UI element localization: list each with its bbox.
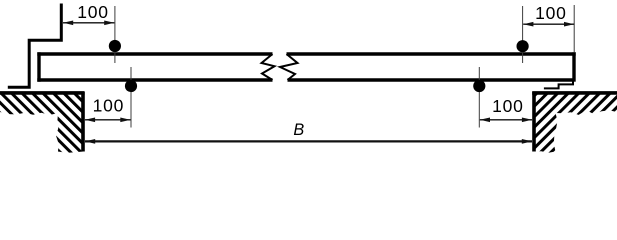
dimension bottom-left 100 [85, 117, 131, 122]
right support left edge [532, 92, 536, 152]
beam right end edge [572, 52, 575, 81]
svg-text:100: 100 [535, 3, 567, 23]
svg-text:100: 100 [93, 96, 125, 116]
beam right segment top edge [287, 52, 576, 55]
right support hatched wall [534, 94, 617, 153]
dimension top-left 100 [63, 20, 114, 25]
roller dot load top-left [109, 40, 121, 52]
extension line bottom-left dot [130, 67, 132, 128]
dimension B span [85, 139, 532, 144]
roller dot load top-right [517, 40, 529, 52]
dimension top-right 100 [523, 22, 574, 27]
beam left segment top edge [37, 52, 272, 55]
left support hatched wall [0, 94, 84, 153]
beam left end edge [37, 52, 40, 81]
left end step profile [8, 4, 62, 88]
right end bearing Z-plate [544, 81, 573, 88]
extension line beam right edge [573, 5, 575, 52]
beam left segment fill [39, 54, 275, 80]
svg-text:100: 100 [492, 96, 524, 116]
dimension bottom-right 100 [480, 117, 532, 122]
beam right segment fill [280, 54, 574, 80]
roller dot support bottom-right [473, 80, 485, 92]
svg-text:B: B [293, 121, 304, 139]
extension line bottom-right dot [478, 67, 480, 128]
extension line top-right dot [522, 6, 524, 63]
left support top edge [0, 91, 85, 95]
beam right segment bottom edge [288, 78, 575, 81]
beam right break zigzag [280, 54, 298, 80]
left support right edge [81, 92, 85, 152]
beam left segment bottom edge [37, 78, 272, 81]
right support top edge [532, 91, 617, 95]
roller dot support bottom-left [125, 80, 137, 92]
extension line top-left dot [114, 6, 116, 63]
beam left break zigzag [262, 54, 275, 80]
svg-text:100: 100 [77, 2, 109, 22]
